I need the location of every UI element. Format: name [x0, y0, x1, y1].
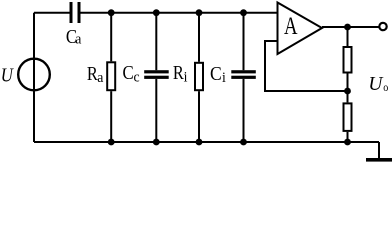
- svg-text:U: U: [368, 73, 384, 95]
- wire: upper feedback resistor top lead: [347, 27, 349, 46]
- svg-text:c: c: [134, 69, 140, 85]
- node: junction dot bottom of Ci: [240, 139, 247, 146]
- wire: left vertical (source branch): [33, 13, 35, 142]
- capacitor Ca: [70, 2, 81, 23]
- resistor (upper feedback divider): [344, 47, 352, 73]
- wire: top rail left segment (source to Ca): [34, 12, 70, 14]
- svg-text:U: U: [1, 64, 15, 86]
- resistor Ra: [107, 62, 115, 90]
- wire: feedback to op-amp inverting input: [265, 41, 348, 91]
- node: junction dot top of Cc: [153, 9, 160, 16]
- wire: upper feedback resistor bottom lead: [347, 74, 349, 92]
- label Cc: [123, 62, 140, 86]
- svg-text:a: a: [97, 70, 104, 86]
- resistor Ri: [195, 63, 203, 90]
- wire: Ra top lead: [110, 13, 112, 62]
- voltage source U: [18, 59, 50, 91]
- wire: bottom rail: [34, 141, 379, 143]
- svg-text:a: a: [75, 31, 82, 47]
- svg-text:i: i: [222, 70, 226, 86]
- svg-text:i: i: [184, 69, 188, 85]
- label Ra: [87, 62, 104, 86]
- wire: Ci bottom lead: [243, 79, 245, 142]
- label Ri: [173, 62, 188, 86]
- node: junction dot at output: [344, 24, 351, 31]
- svg-text:o: o: [383, 81, 388, 94]
- label Ci: [210, 63, 226, 86]
- node: junction dot bottom of Cc: [153, 139, 160, 146]
- wire: Cc bottom lead: [155, 79, 157, 142]
- ground: [366, 158, 392, 162]
- svg-text:C: C: [210, 63, 222, 85]
- capacitor Ci: [231, 70, 256, 79]
- node: junction dot bottom of Ri: [196, 139, 203, 146]
- label Ca: [66, 26, 82, 48]
- wire: ground branch: [378, 142, 380, 158]
- svg-text:A: A: [284, 11, 298, 39]
- svg-text:R: R: [87, 62, 98, 84]
- wire: top rail right segment (Ca to op-amp input): [81, 12, 278, 14]
- wire: Ri top lead: [198, 13, 200, 62]
- resistor (lower divider): [344, 103, 352, 130]
- output terminal: [379, 23, 386, 30]
- node: junction dot top of Ra: [108, 9, 115, 16]
- svg-text:R: R: [173, 62, 184, 84]
- wire: lower divider resistor top lead: [347, 91, 349, 102]
- wire: op-amp output: [322, 26, 379, 28]
- wire: Cc top lead: [155, 13, 157, 70]
- wire: Ri bottom lead: [198, 91, 200, 142]
- node: junction dot on bottom rail: [344, 139, 351, 146]
- wire: Ci top lead: [243, 13, 245, 70]
- node: junction dot top of Ci: [240, 9, 247, 16]
- svg-text:C: C: [123, 62, 134, 84]
- op-amp A: [278, 3, 323, 55]
- capacitor Cc: [144, 70, 169, 79]
- label Uo: [368, 73, 388, 95]
- node: feedback junction dot: [344, 88, 351, 95]
- node: junction dot top of Ri: [196, 9, 203, 16]
- wire: lower divider resistor bottom lead: [347, 132, 349, 142]
- node: junction dot bottom of Ra: [108, 139, 115, 146]
- wire: Ra bottom lead: [110, 91, 112, 142]
